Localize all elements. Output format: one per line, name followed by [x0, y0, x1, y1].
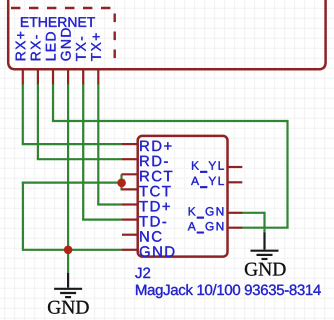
wire LED horizontal long	[52, 120, 288, 122]
pin GND (J2)	[122, 249, 138, 251]
pin A_GN (J2)	[228, 227, 243, 229]
ground label left GND	[48, 301, 89, 314]
ETHERNET dashed boundary top	[11, 7, 116, 9]
component J2 MagJack body	[138, 136, 228, 257]
pin GND (ETHERNET)	[67, 70, 69, 85]
wire TX- to TD-	[82, 219, 122, 221]
junction RCT TCT	[117, 179, 126, 188]
pin TX- (ETHERNET)	[82, 70, 84, 85]
pin RCT (J2)	[122, 173, 138, 175]
wire TX+ vertical	[97, 84, 99, 205]
wire K_GN down to ground	[263, 212, 265, 234]
wire GND row to J2 GND pin	[23, 249, 122, 251]
pin TCT (J2)	[122, 188, 138, 190]
wire LED vertical	[52, 84, 54, 121]
ETHERNET dashed boundary right	[113, 14, 115, 63]
ground label right GND	[245, 263, 286, 276]
ground symbol right	[251, 233, 279, 260]
ground symbol left	[54, 273, 82, 297]
wire right vertical down to A_GN	[286, 120, 288, 228]
pin K_GN (J2)	[228, 212, 243, 214]
pin TD- (J2)	[122, 219, 138, 221]
pin RX+ (ETHERNET)	[22, 70, 24, 85]
pin A_YL (J2)	[228, 181, 243, 183]
wire RX- vertical	[37, 84, 39, 159]
wire RX- to RD-	[37, 158, 122, 160]
value MagJack 10/100 93635-8314	[136, 284, 321, 298]
wire to RCT TCT junction	[22, 182, 122, 184]
wire A_GN row	[242, 227, 289, 229]
wire K_GN row	[242, 212, 265, 214]
wire TX- vertical	[82, 84, 84, 220]
pin NC (J2)	[122, 234, 138, 236]
label ETHERNET	[21, 17, 95, 27]
wire TX+ to TD+	[97, 203, 122, 205]
pin LED (ETHERNET)	[52, 70, 54, 85]
pin TX+ (ETHERNET)	[97, 70, 99, 85]
connector ETHERNET body outline	[8, 0, 325, 69]
wire RX+ vertical	[22, 84, 24, 144]
pin TD+ (J2)	[122, 203, 138, 205]
pin RX- (ETHERNET)	[37, 70, 39, 85]
wire GND vertical pin4 down to ground	[67, 84, 69, 273]
junction GND row	[64, 246, 73, 255]
pin RD- (J2)	[122, 158, 138, 160]
wire RCT-TCT bracket	[120, 174, 122, 190]
wire left vertical TCT feed	[22, 182, 24, 251]
wire RX+ to RD+	[22, 143, 122, 145]
reference J2	[135, 268, 150, 279]
pin K_YL (J2)	[228, 166, 243, 168]
pin RD+ (J2)	[122, 143, 138, 145]
